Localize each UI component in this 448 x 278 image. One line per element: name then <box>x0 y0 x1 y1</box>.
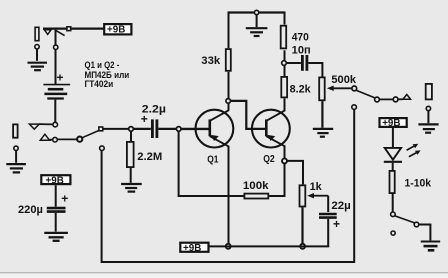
svg-text:220µ: 220µ <box>18 204 43 216</box>
wire wiper to C4 cap 22u <box>327 196 329 212</box>
transistor Q2 <box>252 110 290 148</box>
svg-text:+: + <box>141 112 148 126</box>
switch contact square <box>67 27 71 31</box>
svg-text:22µ: 22µ <box>331 200 350 212</box>
wire top rail down to R4 <box>284 13 286 25</box>
output switch contact circle A <box>375 97 380 102</box>
LED VD1 <box>384 144 421 162</box>
ground (R2) <box>121 184 142 192</box>
wire R9 to switch <box>392 194 394 212</box>
junction circle C4 <box>129 127 134 132</box>
wire node to Q1 collector <box>228 104 230 111</box>
svg-text:10п: 10п <box>292 44 311 56</box>
svg-text:+9В: +9В <box>46 175 64 186</box>
ground (LED switch) <box>421 242 440 251</box>
switch junction circle <box>77 137 82 142</box>
wire emitter node to R7 pot <box>287 161 303 185</box>
+9B box bottom <box>180 243 208 254</box>
svg-text:Q2: Q2 <box>263 154 275 165</box>
wire circle to ground <box>256 15 258 27</box>
wire output jack to ground <box>427 111 429 123</box>
rail junction circle R7 <box>300 244 305 249</box>
resistor R6 100k <box>243 180 270 199</box>
svg-text:1k: 1k <box>310 181 323 193</box>
resistor R4 470 <box>281 26 309 49</box>
wire R2 to ground <box>130 168 132 183</box>
wire R4 to node <box>284 50 286 60</box>
+9B box right <box>380 118 407 129</box>
battery contact circle at input jack <box>53 122 58 127</box>
wire C5 to Q1 base <box>181 128 209 130</box>
battery return contact circle <box>100 146 105 151</box>
wire node to C2 <box>287 62 301 64</box>
capacitor C4 22u <box>319 214 337 218</box>
svg-text:470: 470 <box>292 32 309 44</box>
wire tip contact to battery circle <box>39 123 52 125</box>
svg-text:+9В: +9В <box>382 118 400 129</box>
wire cap to C5 junction <box>158 128 176 130</box>
svg-text:8.2k: 8.2k <box>290 83 312 95</box>
input jack contact circle <box>14 146 18 150</box>
switch lever input <box>82 131 98 138</box>
wire C5 down to R6 <box>179 132 244 197</box>
page divider line <box>0 272 448 273</box>
battery GB1 <box>43 85 70 99</box>
wiper contact circle 500k <box>352 86 357 91</box>
transistor note text <box>85 59 130 89</box>
wire C2 to 500k pot <box>308 63 322 77</box>
wire contact B to tip triangle <box>398 98 403 100</box>
wire C4 down to R2 <box>130 132 132 142</box>
input jack plug tip XS2 <box>13 124 18 137</box>
output jack contact circle <box>426 106 430 110</box>
ground contact circle on rail <box>254 10 258 14</box>
wire box to LED <box>392 128 394 148</box>
wire box to C3 <box>55 185 57 207</box>
svg-text:500k: 500k <box>331 74 357 86</box>
svg-text:33k: 33k <box>201 55 221 67</box>
output switch contact circle B <box>393 97 398 102</box>
switch lever <box>56 30 65 35</box>
node circle 470/8.2k/10n <box>282 61 287 66</box>
potentiometer R8 500k <box>319 77 351 100</box>
+9B box top-left <box>104 24 131 35</box>
battery return wire down and along bottom <box>102 109 355 262</box>
power jack contact circle <box>35 45 39 49</box>
svg-text:ГТ402и: ГТ402и <box>85 78 114 89</box>
wire lower triangle to contact circle <box>50 139 53 141</box>
capacitor C1 2.2u <box>152 119 157 138</box>
coupling wire Q1 collector to Q2 base <box>231 101 266 129</box>
capacitor C2 10n <box>302 55 307 71</box>
resistor R5 8.2k <box>281 77 311 98</box>
LED switch unconnected contact <box>391 231 395 235</box>
resistor R9 1-10k <box>390 171 432 193</box>
resistor R3 33k <box>226 49 231 71</box>
wire battery to input contact <box>54 100 56 123</box>
ground (top-left jack) <box>28 63 48 70</box>
wire C4 to C1 cap <box>134 128 151 130</box>
wire switch to ground <box>419 225 430 241</box>
signal contact circle <box>53 137 58 142</box>
output switch lever <box>356 90 374 97</box>
ground (top middle) <box>246 28 268 36</box>
output jack tip triangle <box>403 95 411 100</box>
resistor R2 2.2M <box>127 142 162 167</box>
ground (output jack) <box>418 124 438 132</box>
junction circle C5 <box>176 127 181 132</box>
LED switch contact circle right <box>414 222 419 227</box>
jack tip triangle contact <box>44 30 51 35</box>
output jack plug tip XS3 <box>426 84 432 100</box>
wire R7 bottom to rail <box>301 207 303 243</box>
wire contact to switch junction <box>58 138 77 140</box>
wire R5 to Q2 collector <box>284 98 286 110</box>
collector node circle Q1 <box>226 99 231 104</box>
rail junction circle Q1 emitter <box>226 244 231 249</box>
ground (input jack) <box>6 164 26 172</box>
capacitor C3 220u <box>47 208 66 212</box>
+9B box 220u branch <box>41 175 70 186</box>
svg-text:2.2M: 2.2M <box>137 151 162 163</box>
wire R3 to collector node <box>228 72 230 99</box>
ground (R8) <box>313 129 333 137</box>
wire C3 to ground <box>55 213 57 232</box>
battery line contact circle below wiper <box>352 105 357 110</box>
input jack upper triangle contact <box>29 124 39 129</box>
top rail wire <box>228 11 286 13</box>
transistor Q1 <box>196 110 234 148</box>
LED switch lever <box>395 216 414 223</box>
svg-text:+: + <box>57 71 64 85</box>
wire C4 to rail corner <box>327 219 329 247</box>
wire plug to ground <box>36 49 38 61</box>
wire Q1 emitter down to rail <box>228 146 230 244</box>
wire square to C4 junction <box>103 128 128 130</box>
wire input jack to ground <box>15 151 17 163</box>
svg-text:100k: 100k <box>243 180 270 192</box>
bottom +9B rail wire <box>209 245 330 247</box>
battery switch contact circle <box>54 45 58 49</box>
potentiometer R7 1k <box>300 181 329 206</box>
wire switch to battery <box>55 30 57 84</box>
wire LED to R9 <box>392 163 394 170</box>
svg-text:1-10k: 1-10k <box>405 178 432 190</box>
wire R6 to Q2 emitter node <box>269 164 284 196</box>
power jack plug tip XS1a <box>35 27 39 40</box>
wire contact A to contact B <box>380 98 393 100</box>
ground (220u) <box>44 233 68 241</box>
svg-text:Q1: Q1 <box>207 155 219 166</box>
svg-text:+: + <box>61 192 68 206</box>
wire R8 bottom to ground <box>321 101 323 128</box>
svg-text:+9В: +9В <box>107 25 125 36</box>
wire Q2 emitter to node <box>284 146 286 158</box>
wire rail to R3 <box>228 13 230 49</box>
wire jack to +9B box <box>43 28 104 30</box>
input jack lower triangle contact <box>40 134 49 140</box>
wire node to R5 <box>284 66 286 76</box>
switch contact square input <box>99 127 103 131</box>
svg-text:+: + <box>333 217 340 231</box>
LED switch contact circle top <box>391 212 396 217</box>
emitter node circle Q2 <box>282 158 287 163</box>
svg-text:+9В: +9В <box>183 243 201 254</box>
